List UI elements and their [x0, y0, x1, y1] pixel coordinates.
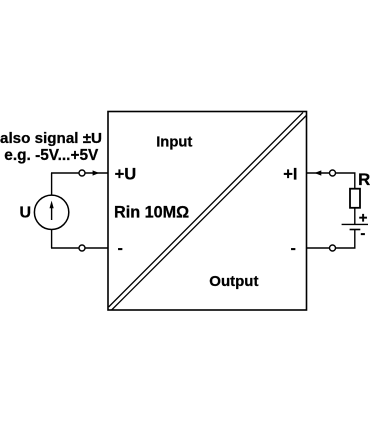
- svg-text:R: R: [358, 170, 370, 189]
- node input minus terminal: [79, 245, 85, 251]
- svg-text:also signal ±U: also signal ±U: [0, 130, 102, 147]
- svg-text:+U: +U: [115, 166, 137, 184]
- wire source top riser: [51, 173, 53, 195]
- diagonal separator line 1: [109, 112, 303, 307]
- wire source top horizontal: [51, 172, 79, 174]
- voltage source U circle: [34, 195, 68, 229]
- wire battery to output minus terminal: [336, 230, 355, 249]
- wire source bottom horizontal: [51, 247, 79, 249]
- svg-text:U: U: [20, 205, 32, 222]
- node output plus terminal: [330, 170, 336, 176]
- wire output minus terminal to box: [307, 247, 330, 249]
- wire output plus terminal to load: [336, 173, 355, 189]
- diagonal separator line 2: [112, 116, 307, 311]
- wire resistor to battery: [354, 208, 356, 225]
- svg-text:Input: Input: [156, 135, 192, 151]
- battery positive plate (long): [342, 223, 368, 225]
- node input plus terminal: [79, 170, 85, 176]
- wire box to output plus terminal with arrow: [307, 170, 330, 175]
- svg-text:Rin 10MΩ: Rin 10MΩ: [114, 203, 189, 221]
- voltage source arrow: [50, 201, 54, 220]
- svg-text:e.g. -5V...+5V: e.g. -5V...+5V: [4, 147, 99, 164]
- wire source bottom riser: [51, 230, 53, 249]
- svg-text:-: -: [118, 240, 123, 257]
- wire input minus terminal to box: [85, 247, 108, 249]
- battery negative plate (short): [350, 229, 361, 231]
- svg-text:Output: Output: [209, 273, 258, 290]
- wire terminal to box with arrow: [85, 170, 108, 175]
- resistor R: [350, 189, 360, 208]
- svg-text:-: -: [291, 240, 296, 257]
- svg-text:+I: +I: [283, 166, 297, 184]
- node output minus terminal: [330, 245, 336, 251]
- svg-text:-: -: [360, 225, 365, 242]
- device box U1 (isolation amplifier): [108, 112, 307, 311]
